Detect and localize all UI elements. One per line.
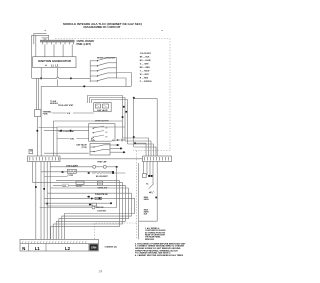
- svg-text:BR — BRN: BR — BRN: [140, 67, 150, 69]
- svg-text:N: N: [22, 246, 25, 251]
- svg-text:P — PURPLE: P — PURPLE: [140, 81, 153, 83]
- svg-text:C-TRD: C-TRD: [68, 175, 74, 177]
- svg-text:L1 L2: L1 L2: [51, 65, 59, 68]
- svg-text:CHASSIS (S): CHASSIS (S): [105, 245, 117, 248]
- svg-text:OV-TR: OV-TR: [76, 186, 82, 188]
- svg-text:CNTRL SW: CNTRL SW: [98, 187, 108, 189]
- svg-text:R — RED: R — RED: [140, 78, 149, 80]
- svg-text:G — GRN: G — GRN: [140, 64, 149, 66]
- svg-text:FUSE: FUSE: [43, 114, 49, 116]
- svg-text:L1: L1: [35, 246, 41, 251]
- svg-text:PNEL (LEFT): PNEL (LEFT): [77, 43, 92, 46]
- svg-text:IGNITION GENERATOR: IGNITION GENERATOR: [38, 59, 72, 63]
- svg-text:DOOR SW: DOOR SW: [98, 211, 107, 213]
- svg-text:L2: L2: [65, 246, 71, 251]
- svg-text:BU — BLUE: BU — BLUE: [140, 60, 152, 62]
- svg-text:24: 24: [99, 269, 103, 273]
- svg-text:MODULE: MODULE: [50, 103, 59, 105]
- svg-text:VOM ELEMNT: VOM ELEMNT: [66, 165, 79, 167]
- svg-text:5 W: 5 W: [67, 113, 70, 115]
- svg-text:PUSH BTN SW: PUSH BTN SW: [95, 194, 108, 196]
- svg-text:4. CABINET MUST BE GROUNDED AT: 4. CABINET MUST BE GROUNDED AT ALL TIMES: [135, 254, 184, 257]
- svg-text:HARN: HARN: [144, 198, 150, 201]
- svg-text:3 BU: 3 BU: [70, 138, 75, 140]
- svg-text:TW HI-LIMIT STAT: TW HI-LIMIT STAT: [58, 104, 74, 107]
- svg-text:Y — YELW: Y — YELW: [140, 71, 150, 73]
- svg-text:DIAGRAMME DU CIRCUIT: DIAGRAMME DU CIRCUIT: [84, 25, 121, 29]
- svg-text:COLOR KEY: COLOR KEY: [140, 53, 152, 55]
- svg-text:REMOVED.: REMOVED.: [145, 239, 155, 241]
- svg-text:BLO ELEMNT: BLO ELEMNT: [96, 176, 109, 178]
- svg-text:GRN: GRN: [91, 247, 97, 250]
- svg-text:GAS VALVE: GAS VALVE: [97, 109, 108, 112]
- svg-text:FRNT LMP: FRNT LMP: [98, 161, 108, 163]
- svg-text:(TOP): (TOP): [82, 147, 87, 149]
- svg-text:W — WHT: W — WHT: [140, 74, 150, 76]
- svg-text:BK — BLK: BK — BLK: [140, 57, 150, 59]
